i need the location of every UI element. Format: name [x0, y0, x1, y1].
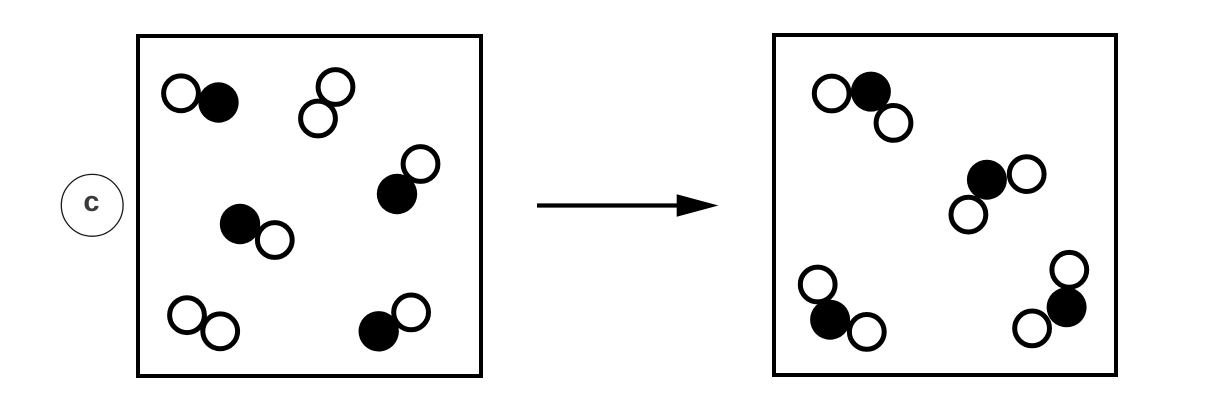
molecule 4: black + white (center of left box): [220, 204, 292, 258]
molecule 3: black + white (right-middle of left box): [377, 147, 438, 215]
svg-text:c: c: [83, 186, 99, 218]
label circle c: [61, 174, 123, 236]
molecule 2: white + white (top-middle of left box): [301, 70, 353, 136]
molecule C: white + black + white (bottom-left of right box): [800, 267, 884, 349]
molecule D: white + black + white (bottom-right of right box): [1015, 252, 1087, 345]
right product box: [774, 35, 1116, 375]
molecule 6: black + white (bottom-right of left box): [359, 295, 429, 351]
molecule 5: white + white (bottom-left of left box): [170, 298, 238, 349]
molecule A: white + black + white (top-left of right box): [814, 72, 911, 141]
reaction arrow: [537, 194, 718, 216]
molecule 1: white + black (top-left of left box): [164, 76, 239, 123]
left reactant box: [138, 36, 481, 376]
molecule B: black + white + white (middle of right box): [951, 157, 1044, 232]
